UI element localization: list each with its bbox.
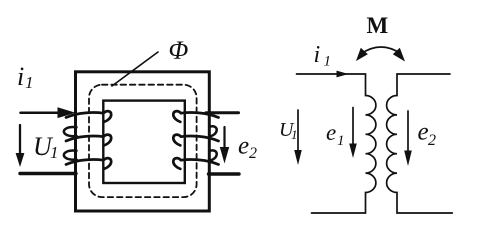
primary winding turn 1 <box>66 111 111 122</box>
svg-text:i: i <box>17 62 24 91</box>
flux label pointer line <box>112 52 158 86</box>
primary winding return bump 1 <box>64 127 77 136</box>
voltage arrow U1 (left diagram) <box>19 125 21 155</box>
wire: primary top lead <box>21 111 60 114</box>
secondary winding return bump 2 <box>210 150 217 160</box>
svg-text:i: i <box>314 42 321 68</box>
mutual inductance coupling arrow <box>362 47 401 54</box>
secondary winding turn 3 <box>173 158 218 169</box>
svg-text:2: 2 <box>249 145 257 162</box>
svg-text:1: 1 <box>50 143 59 162</box>
svg-text:e: e <box>238 133 249 160</box>
svg-text:Φ: Φ <box>169 36 189 65</box>
emf arrow e1 (right diagram) <box>352 108 354 146</box>
secondary winding turn 1 <box>173 111 218 122</box>
right circuit: primary wire and coil L1 <box>297 74 376 213</box>
transformer core window inner edge <box>103 101 185 183</box>
primary winding return bump 2 <box>64 151 77 160</box>
svg-text:1: 1 <box>324 54 332 70</box>
wire: secondary top lead <box>206 111 239 114</box>
primary winding turn 2 <box>66 135 111 146</box>
wire: primary bottom lead <box>20 172 76 175</box>
emf arrow e2 (left diagram) <box>223 127 225 149</box>
svg-text:1: 1 <box>25 73 34 92</box>
svg-text:e: e <box>326 120 336 145</box>
wire: secondary bottom lead <box>209 172 240 175</box>
svg-text:1: 1 <box>337 133 345 149</box>
current arrow i1 (right diagram) <box>337 71 349 78</box>
svg-text:2: 2 <box>428 132 436 149</box>
secondary winding turn 2 <box>173 135 218 146</box>
current arrow i1 (left diagram) <box>58 107 76 118</box>
secondary winding return bump 1 <box>210 126 217 136</box>
transformer core outer edge <box>76 72 210 211</box>
emf arrow e2 (right diagram) <box>407 111 409 152</box>
primary winding turn 3 <box>66 158 111 169</box>
svg-text:e: e <box>418 119 429 146</box>
svg-text:M: M <box>367 13 389 38</box>
flux path (dashed) <box>89 85 197 197</box>
svg-text:1: 1 <box>291 127 298 142</box>
right circuit: secondary wire and coil L2 <box>387 74 453 213</box>
voltage arrow U1 (right diagram) <box>297 110 299 152</box>
